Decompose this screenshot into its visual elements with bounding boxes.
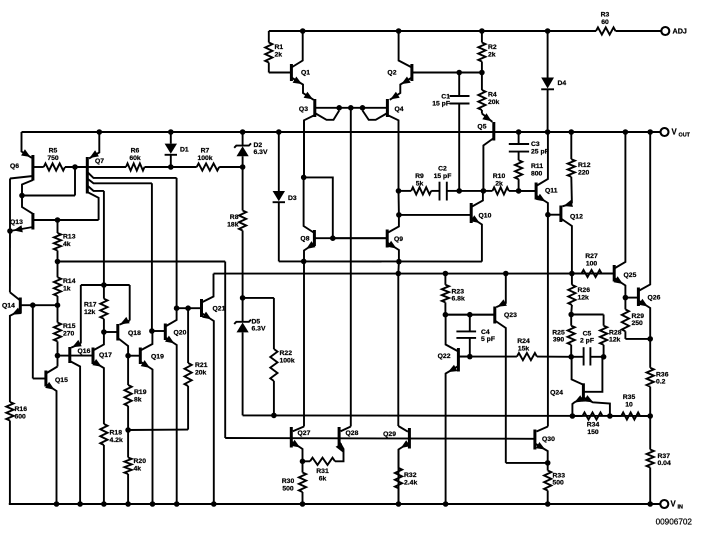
resistor R2 xyxy=(481,31,483,43)
resistor R13 xyxy=(57,220,59,233)
svg-text:Q30: Q30 xyxy=(542,436,555,443)
svg-text:C4: C4 xyxy=(481,329,490,336)
diode D2 zener xyxy=(242,132,244,146)
resistor R26 xyxy=(571,274,573,285)
node C4 bottom xyxy=(467,354,473,360)
node rail-Q22 xyxy=(443,501,449,507)
svg-text:R22: R22 xyxy=(280,350,293,357)
node Q12 base node xyxy=(545,212,551,218)
node Q30 emitter xyxy=(545,460,551,466)
svg-text:2k: 2k xyxy=(488,51,496,58)
svg-text:R6: R6 xyxy=(131,148,140,155)
svg-text:Q14: Q14 xyxy=(2,303,15,310)
svg-text:12k: 12k xyxy=(609,337,621,344)
svg-text:15 pF: 15 pF xyxy=(432,101,450,108)
svg-text:15 pF: 15 pF xyxy=(434,173,452,180)
svg-text:R25: R25 xyxy=(552,329,565,336)
svg-text:100k: 100k xyxy=(197,155,212,162)
node R5-R6 junction xyxy=(72,164,78,170)
wire Q8 base loop xyxy=(304,177,333,238)
node R15 bottom xyxy=(55,353,61,359)
svg-text:Q26: Q26 xyxy=(648,295,661,302)
svg-text:Q24: Q24 xyxy=(550,390,563,397)
wire Q16-Q17 base xyxy=(70,355,93,357)
transistor Q24 xyxy=(582,383,585,401)
svg-text:Q9: Q9 xyxy=(394,236,403,243)
wire emitter bus mid xyxy=(304,260,482,262)
wire Q26 base xyxy=(625,297,638,299)
transistor Q13 xyxy=(31,213,34,230)
svg-text:R1: R1 xyxy=(275,44,284,51)
svg-text:500: 500 xyxy=(282,485,294,492)
transistor Q14 xyxy=(19,298,22,314)
node R26 top xyxy=(569,271,575,277)
resistor R6 xyxy=(86,166,126,168)
svg-text:00906702: 00906702 xyxy=(656,518,693,527)
resistor R15 xyxy=(57,305,59,322)
node Vout-Q7 xyxy=(97,129,103,135)
wire R27-Q25 xyxy=(602,273,615,275)
svg-text:C3: C3 xyxy=(531,141,540,148)
svg-text:V: V xyxy=(672,128,678,137)
wire center bias down xyxy=(350,108,352,427)
wire sink link down xyxy=(397,262,400,274)
svg-text:250: 250 xyxy=(632,320,644,327)
wire R23-Q23 base xyxy=(445,314,494,316)
node Vout-Q25 xyxy=(623,129,629,135)
transistor Q22 xyxy=(457,348,460,372)
transistor Q25 xyxy=(613,265,616,282)
node Q20 collector xyxy=(174,305,180,311)
node rail-Q19 xyxy=(150,501,156,507)
resistor R8 xyxy=(242,167,244,211)
svg-text:2k: 2k xyxy=(275,51,283,58)
resistor R19 xyxy=(127,356,129,385)
resistor R23 xyxy=(444,274,446,285)
svg-text:4k: 4k xyxy=(134,465,142,472)
wire Q7 fan2 down xyxy=(151,183,153,331)
svg-text:390: 390 xyxy=(553,337,565,344)
node Q8-Q9 base xyxy=(330,235,336,241)
node Q26 base node xyxy=(623,295,629,301)
svg-text:25 pF: 25 pF xyxy=(531,148,549,155)
svg-text:Q23: Q23 xyxy=(504,312,517,319)
transistor Q6 xyxy=(31,155,34,181)
svg-text:R4: R4 xyxy=(488,92,497,99)
svg-text:6.3V: 6.3V xyxy=(252,326,266,333)
svg-text:R34: R34 xyxy=(587,422,600,429)
svg-text:Q18: Q18 xyxy=(128,330,141,337)
svg-text:ADJ: ADJ xyxy=(673,27,687,36)
wire comp bus xyxy=(243,414,651,417)
transistor Q3 xyxy=(313,99,316,117)
svg-text:Q7: Q7 xyxy=(95,158,104,165)
svg-text:R26: R26 xyxy=(578,287,591,294)
wire Q22-R24 line xyxy=(458,356,517,358)
wire R29 bottom xyxy=(625,338,650,340)
node C5 right xyxy=(601,354,607,360)
node R7-R8-D2 xyxy=(240,164,246,170)
svg-text:R19: R19 xyxy=(134,389,147,396)
wire C2-Q10 xyxy=(459,190,483,192)
svg-text:D3: D3 xyxy=(288,195,297,202)
svg-text:V: V xyxy=(671,500,677,509)
wire R1 to Q1 base xyxy=(269,72,292,74)
svg-text:Q17: Q17 xyxy=(99,352,112,359)
svg-text:Q21: Q21 xyxy=(213,306,226,313)
terminal ADJ xyxy=(661,27,669,35)
node C1 top xyxy=(456,70,462,76)
resistor R12 xyxy=(570,132,572,159)
svg-text:Q28: Q28 xyxy=(346,430,359,437)
wire Q7 fan3 down xyxy=(103,191,105,285)
transistor Q4 xyxy=(386,99,389,117)
resistor R36 xyxy=(649,339,651,368)
wire emitter box xyxy=(81,284,130,286)
svg-text:Q2: Q2 xyxy=(387,70,396,77)
wire Q6 collector down xyxy=(9,179,11,232)
svg-text:R36: R36 xyxy=(656,371,669,378)
svg-text:10: 10 xyxy=(625,401,633,408)
node Q20 base xyxy=(149,328,155,334)
node rail-D4 xyxy=(545,28,551,34)
node Q13 emitter xyxy=(7,228,13,234)
transistor Q19 xyxy=(139,348,142,365)
svg-text:R31: R31 xyxy=(316,468,329,475)
svg-text:8k: 8k xyxy=(134,396,142,403)
svg-text:C1: C1 xyxy=(441,93,450,100)
node R19-R20 xyxy=(125,427,131,433)
transistor Q8 xyxy=(313,230,316,246)
svg-text:Q13: Q13 xyxy=(10,219,23,226)
svg-text:100k: 100k xyxy=(280,357,295,364)
resistor R33 xyxy=(547,463,549,471)
transistor Q10 xyxy=(470,203,473,223)
resistor R30 xyxy=(302,461,304,472)
svg-text:R14: R14 xyxy=(63,278,76,285)
resistor R9 xyxy=(399,190,412,192)
svg-text:Q3: Q3 xyxy=(299,106,308,113)
diode D4 xyxy=(547,31,549,78)
svg-text:R5: R5 xyxy=(49,148,58,155)
svg-text:R9: R9 xyxy=(415,173,424,180)
node Q29 collector node xyxy=(396,271,402,277)
resistor R16 xyxy=(6,402,13,421)
svg-text:Q27: Q27 xyxy=(298,430,311,437)
node Q24 em1 xyxy=(570,413,576,419)
wire bottom rail xyxy=(9,503,660,505)
wire top rail xyxy=(269,30,596,32)
node Q23 emitter node xyxy=(503,271,509,277)
svg-text:R28: R28 xyxy=(609,329,622,336)
wire R10-Q11 xyxy=(509,190,536,192)
terminal VIN xyxy=(660,500,668,508)
node R23 top xyxy=(443,271,449,277)
resistor R11 xyxy=(515,160,522,179)
resistor R29 xyxy=(624,298,626,310)
transistor Q30 xyxy=(533,430,536,450)
transistor Q9 xyxy=(386,230,389,248)
svg-text:R29: R29 xyxy=(632,313,645,320)
svg-text:OUT: OUT xyxy=(679,133,691,139)
node rail-Q21 xyxy=(211,501,217,507)
resistor R32 xyxy=(398,450,400,468)
wire Q6-Q14 vert xyxy=(9,231,11,292)
wire R21 bottom link xyxy=(128,429,188,431)
svg-text:Q10: Q10 xyxy=(479,212,492,219)
svg-text:R15: R15 xyxy=(63,323,76,330)
node R21 top xyxy=(185,305,191,311)
transistor Q18 xyxy=(116,324,119,341)
svg-text:270: 270 xyxy=(63,330,75,337)
node C1 bottom xyxy=(456,188,462,194)
svg-text:12k: 12k xyxy=(578,294,590,301)
transistor Q12 xyxy=(559,206,562,223)
node R2-R4 junction xyxy=(479,70,485,76)
svg-text:600: 600 xyxy=(15,413,27,420)
transistor Q29 xyxy=(408,428,411,449)
node rail-R30 xyxy=(300,501,306,507)
svg-text:Q22: Q22 xyxy=(438,353,451,360)
svg-text:2.4k: 2.4k xyxy=(404,479,417,486)
resistor R22 xyxy=(273,298,275,349)
node R36 top xyxy=(647,336,653,342)
node R17 bottom xyxy=(101,329,107,335)
node rail-R18 xyxy=(101,501,107,507)
resistor R7 xyxy=(171,166,197,168)
wire Vout rail xyxy=(22,131,661,133)
svg-text:Q11: Q11 xyxy=(545,188,558,195)
wire D3 to junction xyxy=(279,260,304,262)
resistor R37 xyxy=(649,416,651,450)
svg-text:750: 750 xyxy=(47,155,59,162)
node R36-R35-R37 xyxy=(647,413,653,419)
svg-text:R11: R11 xyxy=(531,163,543,170)
node Q9-Q10 base node xyxy=(396,212,402,218)
svg-text:Q16: Q16 xyxy=(78,348,91,355)
transistor Q27 xyxy=(290,427,293,448)
transistor Q7 xyxy=(86,157,89,194)
svg-text:D5: D5 xyxy=(252,318,261,325)
node Q9 emitter node xyxy=(396,259,402,265)
node rail-R37 xyxy=(647,501,653,507)
node D1-R7 xyxy=(168,164,174,170)
svg-text:R2: R2 xyxy=(488,44,497,51)
svg-text:2 pF: 2 pF xyxy=(580,338,594,345)
node Vout-Q26 xyxy=(647,129,653,135)
svg-text:18k: 18k xyxy=(227,221,239,228)
svg-text:220: 220 xyxy=(578,169,590,176)
wire Q21 collector bus xyxy=(214,273,615,275)
svg-text:12k: 12k xyxy=(84,309,96,316)
resistor R10 xyxy=(483,190,492,192)
svg-text:R33: R33 xyxy=(553,472,566,479)
svg-text:R37: R37 xyxy=(658,453,671,460)
resistor R21 xyxy=(187,308,189,363)
svg-text:R16: R16 xyxy=(15,406,28,413)
transistor Q1 xyxy=(290,64,293,81)
node Q3 collector tie xyxy=(336,105,342,111)
diode D3 xyxy=(278,132,280,191)
node C4 top xyxy=(467,312,473,318)
node box-R17 xyxy=(101,282,107,288)
resistor R18 xyxy=(100,424,107,445)
svg-text:R8: R8 xyxy=(230,214,239,221)
wire Q23-Q30 link xyxy=(506,462,548,464)
node Q4 collector tie xyxy=(360,105,366,111)
svg-text:R20: R20 xyxy=(134,458,147,465)
wire R15-Q15 xyxy=(57,356,59,367)
svg-text:15k: 15k xyxy=(518,345,530,352)
transistor Q21 xyxy=(200,299,203,317)
wire Q11-Q30 vert xyxy=(547,215,549,427)
svg-text:6k: 6k xyxy=(319,475,327,482)
resistor R3 xyxy=(596,27,616,34)
svg-text:60: 60 xyxy=(601,19,609,26)
svg-text:Q12: Q12 xyxy=(570,214,583,221)
svg-text:IN: IN xyxy=(678,505,683,511)
node Q8 emitter junction xyxy=(301,259,307,265)
transistor Q26 xyxy=(637,288,640,307)
svg-text:R24: R24 xyxy=(517,338,530,345)
transistor Q17 xyxy=(92,348,95,365)
svg-text:R18: R18 xyxy=(110,430,123,437)
node R13 bottom xyxy=(55,259,61,265)
capacitor C3 xyxy=(518,132,520,144)
node rail-R33 xyxy=(545,501,551,507)
node Q24 em2 xyxy=(607,413,613,419)
svg-text:150: 150 xyxy=(587,429,599,436)
svg-text:R23: R23 xyxy=(452,288,465,295)
node rail-R32 xyxy=(396,501,402,507)
resistor R34 xyxy=(572,415,582,417)
resistor R17 xyxy=(103,285,105,299)
node Vout-D3 xyxy=(276,129,282,135)
svg-text:R27: R27 xyxy=(585,253,598,260)
capacitor C5 xyxy=(571,356,583,358)
wire Q12 base xyxy=(548,214,561,216)
node R23 bottom xyxy=(443,312,449,318)
resistor R24 xyxy=(517,353,537,360)
resistor R28 xyxy=(600,326,607,345)
svg-text:D4: D4 xyxy=(558,80,567,87)
node Vout-D1 xyxy=(168,129,174,135)
svg-text:Q1: Q1 xyxy=(301,70,310,77)
wire D5-R22 top xyxy=(243,297,274,299)
svg-text:C5: C5 xyxy=(583,330,592,337)
node rail-R2 xyxy=(479,28,485,34)
svg-text:Q19: Q19 xyxy=(151,353,164,360)
resistor R4 xyxy=(481,73,483,91)
svg-text:R3: R3 xyxy=(601,12,610,19)
svg-text:6.8k: 6.8k xyxy=(452,296,465,303)
svg-text:Q6: Q6 xyxy=(10,163,19,170)
diode D5 zener xyxy=(242,298,244,323)
node R14-R15 xyxy=(55,302,61,308)
wire Q7 fan1 down xyxy=(176,178,178,308)
svg-text:Q25: Q25 xyxy=(624,272,637,279)
svg-text:0.04: 0.04 xyxy=(658,460,671,467)
capacitor C4 xyxy=(469,315,471,332)
node rail-Q16 xyxy=(77,501,83,507)
svg-text:R35: R35 xyxy=(623,394,636,401)
transistor Q2 xyxy=(410,64,413,81)
wire Q27-Q30 base line xyxy=(225,437,535,440)
node Q14 base link xyxy=(30,302,36,308)
wire Q2 base xyxy=(412,72,482,74)
node rail-R20 xyxy=(125,501,131,507)
node Vout-D2 xyxy=(240,129,246,135)
svg-text:6.3V: 6.3V xyxy=(254,149,268,156)
node Vout-C3 xyxy=(516,129,522,135)
node Q27 emitter xyxy=(300,459,306,465)
resistor R35 xyxy=(610,415,621,417)
svg-text:R12: R12 xyxy=(578,162,591,169)
node rail-Q15 xyxy=(54,501,60,507)
node center bias xyxy=(348,105,354,111)
svg-text:4k: 4k xyxy=(63,241,71,248)
resistor R14 xyxy=(57,262,59,278)
node Vout-D4 xyxy=(545,129,551,135)
resistor R27 xyxy=(572,273,582,275)
wire R26-R28 link xyxy=(571,314,603,316)
svg-text:1k: 1k xyxy=(63,285,71,292)
wire Q6-Q13 link xyxy=(22,195,75,197)
transistor Q20 xyxy=(164,324,167,341)
resistor R5 xyxy=(33,166,44,168)
svg-text:R30: R30 xyxy=(282,478,295,485)
resistor R25 xyxy=(570,315,572,326)
node Q5-Q10 collector xyxy=(481,188,487,194)
svg-text:5 pF: 5 pF xyxy=(481,336,495,343)
svg-text:R32: R32 xyxy=(404,472,417,479)
svg-text:D2: D2 xyxy=(254,142,263,149)
transistor Q11 xyxy=(535,183,538,200)
svg-text:R7: R7 xyxy=(201,148,210,155)
node rail-Q1 xyxy=(300,28,306,34)
node Q19 base xyxy=(125,353,131,359)
svg-text:500: 500 xyxy=(553,480,565,487)
wire R9-node to Q10 base xyxy=(398,191,400,215)
node rail-Q20 xyxy=(174,501,180,507)
resistor R31 xyxy=(303,460,311,462)
transistor Q15 xyxy=(44,371,47,387)
node C5 left xyxy=(568,354,574,360)
svg-text:R17: R17 xyxy=(84,302,97,309)
svg-text:R21: R21 xyxy=(195,362,208,369)
node R9 left xyxy=(396,188,402,194)
svg-text:C2: C2 xyxy=(438,166,447,173)
node R11 bottom xyxy=(516,188,522,194)
wire Q15 base vert xyxy=(32,305,34,378)
resistor R20 xyxy=(127,430,129,458)
diode D1 xyxy=(170,132,172,144)
node R25 top xyxy=(568,312,574,318)
wire Q27 collector vert xyxy=(303,261,305,426)
transistor Q28 xyxy=(338,427,341,448)
transistor Q23 xyxy=(493,307,496,324)
transistor Q16 xyxy=(68,347,71,363)
svg-text:20k: 20k xyxy=(195,369,207,376)
wire Q3 branch down xyxy=(303,120,305,177)
wire mid-left bus xyxy=(58,261,226,263)
svg-text:5k: 5k xyxy=(416,180,424,187)
capacitor C2 xyxy=(431,190,439,192)
svg-text:Q8: Q8 xyxy=(300,236,309,243)
svg-text:4.2k: 4.2k xyxy=(110,437,123,444)
resistor R1 xyxy=(268,31,270,43)
node Q6 lower xyxy=(19,193,25,199)
